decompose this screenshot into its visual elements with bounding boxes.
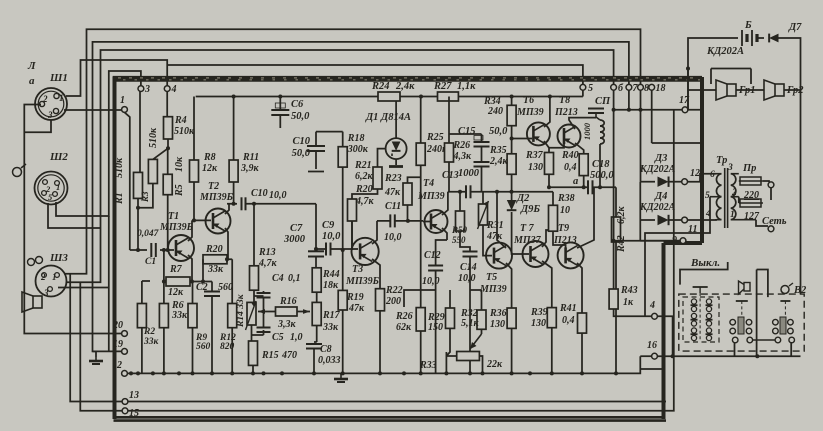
thick top bus (113, 77, 702, 82)
label R35 (489, 145, 509, 167)
label R8 (202, 152, 218, 174)
svg-text:Д2: Д2 (516, 193, 530, 204)
svg-text:R7: R7 (169, 264, 183, 275)
capacitor C6 (271, 103, 289, 115)
diode D1 zener (386, 138, 407, 159)
capacitor C15 (474, 136, 490, 147)
wire T4 emitter (442, 228, 447, 240)
svg-text:510к: 510к (148, 127, 159, 148)
wire Sh2 to terminal 3 (56, 71, 141, 216)
label R34 (483, 96, 503, 117)
terminal 4 (164, 84, 176, 95)
junction C2 top (201, 280, 205, 284)
svg-text:10,0: 10,0 (269, 190, 287, 201)
svg-text:КД202А: КД202А (706, 46, 744, 57)
wire T2 emitter (225, 228, 228, 259)
wire R16 wiper (258, 311, 310, 313)
svg-text:3000: 3000 (283, 234, 306, 245)
junction R18 base wire (341, 248, 345, 252)
wire R13 top (253, 204, 255, 266)
wire R39 bottom (551, 328, 553, 374)
svg-text:5: 5 (588, 83, 593, 94)
potentiometer R14 (236, 293, 256, 330)
connector Sh3 (36, 266, 67, 299)
junction R43 top (612, 239, 616, 243)
svg-text:2: 2 (42, 94, 48, 104)
wire R21-R20b link (352, 189, 378, 199)
junction dots on bottom rail (129, 371, 618, 375)
label R42 (616, 206, 627, 254)
wire T5 collector (497, 192, 506, 248)
wire T4 base (423, 221, 431, 223)
wire top right frame (688, 38, 738, 110)
svg-text:4: 4 (171, 84, 177, 95)
wire R3 bottom (138, 184, 153, 208)
svg-text:13: 13 (129, 390, 139, 401)
wire R20 left to C2 (192, 259, 212, 281)
label T9 (553, 223, 577, 246)
wire base link T1-T2 (192, 219, 211, 221)
label R39 (530, 307, 548, 329)
svg-text:КД202А: КД202А (639, 202, 676, 213)
wire L3 terminal 6 loop (66, 50, 614, 282)
label C16 (458, 168, 480, 179)
svg-text:С7: С7 (290, 223, 303, 234)
svg-text:С9: С9 (322, 220, 335, 231)
wire Sh1 pin3 to terminal 1 (64, 109, 122, 111)
wire R17 bottom (316, 326, 318, 343)
wire 9 to thick (640, 240, 680, 242)
label R31 (486, 220, 504, 242)
terminal 6 (611, 83, 624, 94)
label R5 (174, 156, 185, 197)
svg-text:0,047: 0,047 (137, 229, 160, 239)
label R12 (219, 333, 236, 352)
terminal 18 (649, 83, 666, 94)
wire C12 bottom (404, 271, 436, 374)
svg-text:С10: С10 (292, 136, 310, 147)
wire R9 bottom (192, 328, 194, 374)
svg-text:Сеть: Сеть (762, 216, 787, 227)
wire T4 emitter to C12 (436, 240, 447, 266)
wire speaker right (784, 89, 801, 91)
terminal 12 (682, 168, 700, 185)
wire C8 bottom (313, 349, 315, 374)
svg-text:R8: R8 (203, 152, 216, 163)
icon microphone (28, 257, 43, 266)
svg-text:R17: R17 (322, 310, 341, 321)
label R26a (453, 140, 473, 162)
wire mains lower (756, 220, 768, 226)
svg-text:Ш3: Ш3 (49, 252, 68, 264)
label R3 (140, 127, 159, 203)
resistor R15 (249, 341, 258, 365)
svg-text:130: 130 (531, 318, 546, 329)
label Gr2 (786, 85, 804, 96)
label R13 (258, 247, 278, 269)
transformer primary winding (731, 174, 756, 220)
resistor R35 (507, 154, 516, 175)
label R20 (205, 244, 224, 275)
label D2 (516, 193, 540, 215)
resistor R26a (445, 143, 454, 162)
wire C2 stub (211, 282, 213, 292)
wire T1 emitter (188, 255, 192, 277)
svg-text:150: 150 (428, 322, 443, 333)
resistor R41 (578, 313, 587, 333)
label D3 (639, 153, 676, 175)
label R9 (195, 333, 211, 352)
label C9 (322, 220, 341, 242)
svg-text:6: 6 (710, 170, 715, 180)
wire between speakers (736, 89, 764, 91)
label R6 (171, 300, 188, 321)
svg-text:47к: 47к (384, 187, 401, 198)
wire T9 collector (577, 187, 594, 248)
wire terminal 16 stub (640, 355, 651, 357)
svg-text:R23: R23 (384, 173, 402, 184)
resistor R2 (137, 304, 146, 328)
svg-text:3: 3 (43, 288, 49, 298)
svg-text:130: 130 (528, 162, 543, 173)
diode D2 (507, 200, 517, 210)
svg-text:МП37: МП37 (513, 235, 542, 246)
svg-text:33к: 33к (143, 337, 160, 347)
svg-text:Т4: Т4 (423, 178, 434, 189)
transistor T9 (558, 242, 584, 268)
wire terminal 15 external (80, 282, 122, 411)
wire R4 top (166, 92, 168, 117)
wire R44-R17 link (316, 292, 318, 302)
junction D1 top (394, 95, 398, 99)
junction 16 line (671, 354, 760, 358)
label T1 (159, 211, 194, 233)
wire C2 bottom (211, 296, 213, 373)
svg-text:1к: 1к (623, 297, 634, 308)
svg-text:0,4: 0,4 (564, 162, 577, 173)
svg-text:560: 560 (196, 342, 211, 352)
label R18 (347, 133, 369, 155)
svg-text:33к: 33к (207, 264, 224, 275)
svg-text:Т3: Т3 (352, 264, 363, 275)
transistor T4 (425, 210, 448, 233)
capacitor C10 coupling (242, 197, 246, 210)
resistor R36 (507, 308, 516, 328)
svg-text:1,0: 1,0 (290, 332, 303, 343)
terminal 3 (138, 84, 150, 95)
wire T6 collector (544, 97, 550, 128)
svg-text:С8: С8 (320, 344, 332, 355)
svg-text:1: 1 (52, 272, 57, 282)
resistor R25 (416, 143, 425, 165)
svg-text:С2: С2 (196, 282, 208, 293)
wire terminal 13 line right (128, 401, 666, 403)
wire R34 bottom / T6 base (512, 126, 532, 154)
svg-text:Д1 Д814А: Д1 Д814А (365, 112, 411, 123)
svg-text:МП39: МП39 (417, 191, 445, 202)
wire switch feed right (757, 270, 768, 357)
transistor T3 (352, 238, 379, 265)
ground near terminal 19 (89, 357, 103, 364)
wire C7 bottom to R44 (315, 257, 317, 268)
svg-text:R20: R20 (205, 244, 223, 255)
wire R14 bottom / C5 join (252, 325, 264, 341)
svg-text:6,2к: 6,2к (616, 206, 627, 225)
resistor R3 (148, 159, 157, 183)
label C7 (283, 223, 306, 245)
label R16 (277, 296, 297, 330)
inductor SP coil (582, 113, 604, 144)
switch 2 contacts (730, 317, 753, 343)
wire input base line 2 (160, 249, 174, 251)
label R1 (114, 157, 125, 205)
wire mains terminal link (770, 188, 772, 200)
svg-text:R4: R4 (174, 115, 187, 126)
svg-text:4: 4 (649, 300, 655, 311)
label Tr (716, 155, 727, 166)
wire R20b bottom to T3 base (351, 221, 353, 250)
label R27 (433, 81, 476, 92)
svg-text:1: 1 (730, 210, 735, 220)
wire R33 right lead (479, 356, 482, 373)
svg-text:С5: С5 (272, 332, 284, 343)
svg-text:R43: R43 (620, 285, 638, 296)
wire C13 line (448, 191, 553, 193)
svg-text:Ш1: Ш1 (49, 72, 68, 84)
svg-text:33к: 33к (171, 310, 188, 321)
svg-text:Т 7: Т 7 (520, 223, 535, 234)
wire R41 bottom (581, 333, 583, 373)
wire D3 anode (640, 181, 655, 183)
svg-text:R3: R3 (140, 191, 150, 203)
svg-text:Т2: Т2 (208, 181, 219, 192)
label T3 (345, 264, 380, 287)
svg-text:МП39Б: МП39Б (345, 276, 380, 287)
wire R26b bottom (420, 331, 422, 373)
resistor R20b (348, 199, 357, 221)
svg-text:С10: С10 (251, 188, 268, 199)
svg-text:2: 2 (731, 188, 737, 198)
label R15 (261, 350, 297, 361)
capacitor C10b (307, 146, 325, 151)
wire 11 to transformer (688, 219, 717, 220)
svg-text:Д9Б: Д9Б (520, 204, 540, 215)
wire R30 top (459, 192, 461, 211)
svg-text:Б: Б (744, 20, 752, 31)
label V2 (793, 285, 807, 296)
resistor R44 (312, 268, 321, 292)
thick left edge (113, 77, 117, 420)
svg-text:3,9к: 3,9к (240, 163, 260, 174)
svg-text:КД202А: КД202А (639, 164, 676, 175)
svg-text:1: 1 (59, 93, 64, 103)
terminal 15 (122, 408, 139, 419)
svg-text:С4: С4 (272, 273, 284, 284)
junction T6 base node (510, 137, 514, 141)
wire C14 bottom (469, 257, 471, 374)
transistor T5 (486, 243, 512, 269)
wire C16 bottom (481, 167, 483, 192)
potentiometer R33 horizontal (457, 352, 480, 361)
wire C10a right (246, 203, 317, 205)
wire SP bottom (599, 144, 601, 187)
resistor R39 (547, 308, 556, 328)
switch commons bar (753, 339, 776, 341)
wire R8 bottom (193, 182, 195, 220)
svg-text:П213: П213 (554, 107, 578, 118)
wire C11 line (377, 220, 423, 222)
label R20b (355, 184, 375, 207)
wire D1 bottom (395, 159, 397, 165)
wire R18 bottom to base wire (342, 167, 344, 250)
wire Sh1 pin1 to terminal 4 (66, 60, 167, 96)
wire switch bottom stubs (735, 342, 792, 356)
wire T7 emitter (542, 261, 552, 308)
wire R13 bottom (254, 290, 264, 302)
label C15 (458, 126, 508, 137)
wire R42 bottom (615, 242, 617, 373)
svg-text:R26: R26 (395, 311, 413, 322)
resistor R9 (188, 304, 197, 328)
resistor R7 horizontal (166, 277, 190, 286)
diode D3 (658, 177, 669, 187)
wire R43 top (614, 241, 681, 289)
wire T3 emitter (372, 259, 380, 289)
resistor R27 horizontal (438, 92, 459, 101)
wire D4 to 11 (669, 219, 682, 221)
wire R2 bottom (141, 328, 143, 374)
thick jog (664, 241, 703, 245)
transistor T2 (206, 209, 231, 234)
resistor R29 (446, 308, 455, 328)
terminal 8 (638, 83, 649, 94)
junction node a dots (547, 185, 586, 189)
wire ground stub near 19 (93, 351, 97, 357)
fuse 220 (739, 177, 763, 201)
wire D3 to 12 (669, 181, 682, 183)
svg-text:R42: R42 (616, 235, 627, 253)
capacitor C14 (463, 252, 478, 257)
ground below rail (334, 375, 348, 382)
resistor R32 (477, 310, 486, 329)
resistor R12 (228, 304, 237, 328)
label T7 (513, 223, 542, 246)
wire R11 bottom (227, 182, 234, 204)
resistor R43 (609, 289, 618, 309)
svg-text:20: 20 (112, 320, 123, 331)
svg-text:3,3к: 3,3к (277, 319, 297, 330)
svg-text:33к: 33к (322, 322, 339, 333)
transistor T8 (558, 125, 581, 148)
resistor R42 (612, 217, 621, 242)
wire C10node to C7 (315, 204, 317, 249)
svg-text:R31: R31 (486, 220, 504, 231)
svg-text:5,1к: 5,1к (461, 318, 480, 329)
wire R32 top (470, 290, 482, 310)
wire R9 top (192, 282, 194, 304)
svg-text:240: 240 (487, 106, 503, 117)
wire fuse2 in (738, 197, 740, 203)
label R44 (322, 269, 340, 291)
svg-text:470: 470 (281, 350, 297, 361)
junction emitter T1 (190, 280, 194, 284)
wire Sh3 pin wire third (58, 216, 109, 351)
wire fuse1 to mains (763, 181, 769, 182)
label R23 (384, 173, 402, 198)
terminal 11 (682, 217, 698, 235)
resistor R26b 62k (416, 308, 425, 331)
label R40 (561, 150, 579, 173)
wire R8 col (193, 97, 195, 161)
terminal 9 (672, 235, 686, 246)
switch 3 contacts (773, 317, 795, 343)
svg-text:22к: 22к (486, 359, 503, 370)
svg-text:а: а (573, 176, 578, 187)
wire R25 col (420, 97, 422, 144)
svg-text:R25: R25 (426, 132, 444, 143)
wire R19 bottom (342, 310, 344, 373)
wire R31 top (482, 192, 484, 204)
svg-text:R33: R33 (419, 360, 437, 371)
svg-text:С11: С11 (385, 201, 401, 212)
fuse 127 (739, 199, 763, 222)
junction C13 line dots (495, 190, 514, 194)
svg-text:МП39Б: МП39Б (199, 192, 234, 203)
svg-text:1000: 1000 (458, 168, 480, 179)
svg-text:510к: 510к (174, 126, 195, 137)
svg-text:127: 127 (744, 211, 760, 222)
wire T4 collector (442, 192, 448, 215)
wire R34 top (511, 97, 513, 106)
wire R25 bottom long (420, 165, 422, 307)
junction 17 line dots (627, 108, 643, 112)
label D4 (639, 191, 676, 213)
label T5 (479, 272, 507, 295)
svg-text:15: 15 (129, 408, 139, 419)
junction R6 top (162, 248, 166, 252)
svg-text:3: 3 (727, 163, 733, 173)
svg-text:Т1: Т1 (168, 211, 179, 222)
wire terminal 17 line (614, 109, 701, 111)
terminal 13 (122, 390, 139, 404)
label T2 (199, 181, 234, 203)
svg-text:130: 130 (490, 319, 505, 330)
svg-text:3: 3 (47, 110, 53, 120)
svg-text:R22: R22 (385, 285, 403, 296)
resistor R19 (338, 290, 347, 310)
label R7 (168, 264, 184, 298)
wire C6 stub (279, 97, 281, 111)
capacitor C11 (390, 214, 395, 227)
resistor R8 (190, 160, 199, 182)
svg-text:С12: С12 (424, 250, 441, 261)
wire T2 collector (225, 204, 229, 214)
label R29 (427, 312, 445, 333)
svg-text:С6: С6 (291, 99, 304, 110)
svg-text:8: 8 (644, 83, 649, 94)
capacitor C8 (306, 344, 322, 349)
svg-text:МП39Б: МП39Б (159, 222, 194, 233)
capacitor C5 (257, 328, 271, 333)
svg-text:В2: В2 (793, 285, 807, 296)
resistor R6 (159, 304, 168, 328)
resistor R30 (456, 211, 465, 231)
junction R1-base (136, 248, 140, 252)
label R22 (385, 285, 403, 307)
wire 12 to transformer (688, 174, 717, 182)
label SP (595, 96, 611, 107)
svg-text:10,0: 10,0 (422, 276, 440, 287)
